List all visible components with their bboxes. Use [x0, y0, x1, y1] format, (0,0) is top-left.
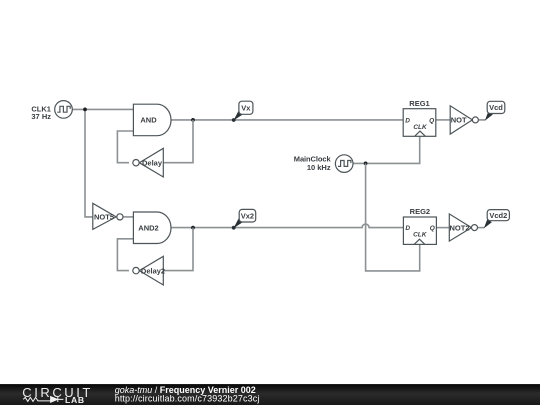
svg-text:Vx: Vx [241, 103, 251, 112]
svg-text:Vcd: Vcd [489, 103, 503, 112]
svg-text:AND2: AND2 [138, 224, 158, 233]
svg-text:D: D [405, 118, 410, 125]
svg-text:REG2: REG2 [410, 207, 430, 216]
probe flag Vx2 [232, 209, 256, 229]
AND gate AND [133, 104, 171, 136]
wire REG2 Q to NOT2 input [436, 227, 449, 229]
svg-text:NOT2: NOT2 [449, 223, 469, 232]
wire REG1 Q to NOT input [436, 119, 450, 121]
svg-text:NOT: NOT [451, 116, 467, 125]
svg-text:REG1: REG1 [409, 99, 429, 108]
AND gate AND2 [133, 212, 171, 244]
inverter NOT2 [449, 214, 477, 241]
svg-text:CLK: CLK [413, 124, 428, 131]
wire CLK1 output to AND input 1 [72, 108, 133, 110]
D flip-flop REG1 [403, 109, 436, 137]
D flip-flop REG2 [403, 217, 436, 244]
wire NOT output stub [478, 119, 485, 121]
svg-text:Vx2: Vx2 [241, 212, 254, 221]
svg-text:NOT5: NOT5 [94, 213, 114, 222]
svg-text:37 Hz: 37 Hz [31, 112, 51, 121]
wire MainClock down to REG2 CLK [366, 163, 420, 271]
clock source CLK1 [55, 101, 73, 119]
svg-text:Vcd2: Vcd2 [489, 211, 507, 220]
wire CLK1 junction down to NOT5 input [85, 109, 93, 216]
svg-text:D: D [405, 225, 410, 232]
svg-text:10 kHz: 10 kHz [307, 163, 331, 172]
junction MainClock output [364, 162, 368, 166]
svg-text:Q: Q [429, 118, 434, 125]
svg-text:CLK: CLK [413, 232, 428, 239]
inverter Delay2 [133, 256, 165, 285]
svg-text:Q: Q [430, 225, 435, 232]
svg-text:LAB: LAB [65, 395, 85, 405]
clock source MainClock [335, 155, 353, 173]
inverter NOT5 [93, 203, 123, 229]
wire Delay output to AND input 2 [117, 131, 133, 163]
wire Delay feedback right side [163, 120, 193, 163]
inverter Delay [133, 148, 164, 177]
svg-text:Delay2: Delay2 [141, 266, 165, 275]
wire Delay2 feedback right side [163, 228, 193, 271]
svg-text:AND: AND [140, 116, 157, 125]
junction AND2 output [191, 226, 195, 230]
wire NOT2 output stub [478, 227, 485, 229]
CircuitLab logo resistor squiggle and diode [23, 397, 63, 403]
junction AND output [191, 118, 195, 122]
probe flag Vx [232, 101, 253, 122]
footer bar [0, 384, 540, 405]
probe flag Vcd2 [484, 210, 510, 229]
junction at CLK1 output [83, 108, 87, 112]
svg-text:http://circuitlab.com/c73932b2: http://circuitlab.com/c73932b27c3cj [115, 394, 260, 404]
wire Delay2 output to AND2 input 2 [117, 239, 133, 271]
probe flag Vcd [485, 101, 505, 120]
inverter NOT [450, 106, 478, 134]
wire AND2 output to REG2 D with hop [171, 224, 404, 227]
wire NOT5 output to AND2 input 1 [123, 216, 133, 218]
wire MainClock to REG1 CLK [353, 136, 420, 163]
svg-text:Delay: Delay [142, 159, 163, 168]
wire AND output to REG1 D [171, 119, 403, 121]
